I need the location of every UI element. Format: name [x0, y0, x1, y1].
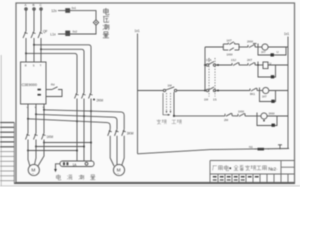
svg-text:R: R — [25, 64, 27, 68]
phase terminal L2 — [33, 8, 36, 11]
svg-text:2M: 2M — [224, 118, 229, 122]
svg-text:L1x: L1x — [50, 32, 56, 36]
svg-text:w: w — [43, 106, 45, 109]
svg-text:S: S — [33, 64, 35, 68]
voltmeter PV — [93, 20, 98, 25]
svg-text:0x1: 0x1 — [72, 6, 77, 10]
run switch loop — [46, 89, 52, 91]
ammeter box — [60, 161, 94, 167]
rung3 — [204, 90, 206, 92]
svg-text:12x: 12x — [51, 9, 57, 13]
node CT V — [35, 146, 37, 148]
bypass wire B — [41, 49, 84, 92]
selector group2 dashes — [209, 58, 215, 97]
svg-text:2KM: 2KM — [269, 112, 276, 116]
NC contact 2KM — [247, 45, 249, 47]
output terminal labels — [27, 106, 45, 109]
rung4 — [174, 115, 225, 117]
contactor 1KM pole 3 — [42, 133, 46, 140]
contactor 3KM pole 3 — [89, 93, 93, 99]
wire L3 down to breaker — [40, 11, 42, 32]
control feed 1x1 — [135, 29, 140, 33]
svg-text:2KT: 2KT — [247, 58, 253, 62]
node CT U — [27, 150, 29, 152]
svg-text:1x1: 1x1 — [135, 29, 140, 33]
motor M2 — [113, 164, 124, 175]
label 1KM — [47, 135, 54, 139]
bottom return line — [138, 149, 290, 154]
crossover wire V to 2KM — [36, 114, 117, 129]
bypass wire A lower — [76, 99, 78, 162]
wire voltage row1 — [58, 11, 96, 20]
motor1 feed U — [27, 140, 29, 151]
selector linkage dashes — [163, 93, 169, 115]
rung2 — [204, 64, 206, 66]
svg-text:8K1: 8K1 — [250, 92, 256, 96]
selector rung — [138, 90, 164, 92]
svg-text:1KM: 1KM — [227, 52, 234, 56]
svg-text:A: A — [25, 3, 27, 7]
earth wire — [56, 164, 61, 169]
node out W — [43, 109, 45, 111]
svg-text:№2·: №2· — [268, 167, 278, 173]
bypass wire C — [26, 53, 77, 92]
wire L1 down to breaker — [25, 11, 27, 32]
fuse FU2 — [65, 31, 70, 36]
node tap A — [33, 44, 35, 46]
svg-text:3KM: 3KM — [127, 132, 134, 136]
inverter run terminal marks — [38, 89, 41, 91]
svg-text:Rd: Rd — [51, 83, 55, 87]
svg-text:~: ~ — [32, 172, 34, 176]
svg-text:N1: N1 — [249, 145, 253, 149]
inverter input terminal labels — [25, 64, 42, 68]
border frame — [16, 3, 295, 183]
svg-text:2KM: 2KM — [247, 40, 254, 44]
svg-text:~: ~ — [117, 172, 119, 176]
motor1 feed W — [43, 140, 45, 143]
bypass wire A — [34, 45, 91, 93]
bypass wire C lower — [90, 99, 92, 162]
voltage row 1 label — [51, 9, 57, 13]
wire pole2 to inverter — [33, 38, 35, 62]
node tap B — [40, 48, 42, 50]
node bypass A — [76, 120, 78, 122]
contactor 1KM pole 2 — [34, 133, 38, 140]
contactor 2KM pole 3 — [122, 129, 126, 136]
snubber loop rung3 — [260, 91, 276, 102]
breaker QF pole 2 — [31, 31, 36, 38]
node bypass B — [83, 115, 85, 117]
snubber loop rung4 — [257, 117, 277, 126]
breaker QF pole 3 — [38, 31, 43, 38]
selector 1SA contact a — [163, 89, 165, 91]
inverter model text — [22, 83, 37, 87]
breaker QF pole 1 — [23, 31, 28, 38]
bypass wire B lower — [83, 99, 85, 162]
contact 8K1 — [249, 89, 251, 91]
svg-text:1KM: 1KM — [47, 135, 54, 139]
node CT W — [43, 142, 45, 144]
svg-text:1KT: 1KT — [227, 38, 233, 42]
contact 2M — [224, 114, 226, 116]
contact 1KM NC — [237, 114, 239, 116]
motor1 feed V — [35, 140, 37, 147]
svg-text:1S: 1S — [213, 98, 217, 102]
contactor 3KM pole 1 — [75, 93, 79, 99]
wire pole1 to inverter — [25, 38, 27, 62]
label QF — [43, 30, 47, 34]
parallel block — [222, 44, 224, 50]
coil rung3 — [263, 87, 269, 93]
left margin revision table — [0, 123, 14, 184]
coil 1KT — [262, 44, 268, 50]
node out U — [27, 118, 29, 120]
rung1 — [205, 46, 223, 48]
svg-text:2KM: 2KM — [97, 99, 104, 103]
label dianliu celiang — [56, 174, 95, 180]
title small cell marks — [213, 176, 217, 178]
phase terminal L3 — [40, 8, 43, 11]
contact 1SJ — [231, 63, 233, 65]
motor2 leads — [110, 136, 114, 166]
inverter output W — [43, 104, 45, 133]
inverter output V — [35, 104, 37, 133]
label dianya celiang vertical — [103, 8, 109, 38]
CT wire U — [28, 150, 77, 152]
svg-text:T: T — [40, 64, 42, 68]
contactor 2KM pole 2 — [115, 129, 119, 136]
fuse N1 on return — [249, 145, 253, 149]
svg-text:1KM: 1KM — [238, 110, 245, 114]
svg-text:C3E9000: C3E9000 — [22, 83, 37, 87]
svg-text:1KT: 1KT — [261, 50, 266, 54]
phase terminal L1 — [25, 8, 28, 11]
title text blobs — [213, 165, 267, 171]
ladder feed vertical — [204, 47, 206, 91]
motor M1 — [28, 164, 39, 175]
contactor 1KM pole 1 — [26, 133, 30, 140]
node out V — [35, 113, 37, 115]
motor1 leads — [28, 151, 30, 166]
wire L2 down to breaker — [33, 11, 35, 32]
CT wire V — [36, 146, 84, 148]
page left edge line — [0, 55, 2, 186]
svg-text:B: B — [33, 3, 35, 7]
linkage arrowheads — [166, 111, 172, 113]
CT wire W — [44, 142, 91, 144]
coil 1K rect — [263, 62, 268, 69]
inverter U1 box — [21, 62, 47, 104]
position labels bianpin gongpin — [157, 120, 182, 125]
label 2KM — [127, 132, 134, 136]
voltage row 2 label — [50, 32, 56, 36]
svg-text:1SJ: 1SJ — [231, 58, 237, 62]
coil 2KM — [261, 113, 267, 119]
wire pole3 to inverter — [40, 38, 42, 62]
phase labels — [25, 3, 43, 7]
wire voltage row2 — [58, 25, 96, 34]
svg-text:1x1: 1x1 — [284, 32, 289, 36]
label 3KM — [97, 99, 104, 103]
inverter output U — [27, 104, 29, 133]
contactor 2KM pole 1 — [108, 129, 112, 136]
contact 2KT — [247, 63, 249, 65]
svg-text:1M: 1M — [204, 98, 209, 102]
contactor 3KM pole 2 — [82, 93, 86, 99]
crossover wire U to 2KM — [28, 119, 110, 130]
svg-text:~: ~ — [268, 147, 270, 151]
svg-text:0x2: 0x2 — [73, 29, 78, 33]
node tap C — [25, 52, 27, 54]
svg-text:QF: QF — [43, 30, 47, 34]
svg-text:1KT: 1KT — [262, 95, 267, 99]
node bypass C — [90, 110, 92, 112]
svg-text:1M: 1M — [168, 83, 173, 87]
fuse FU1 — [65, 8, 70, 13]
svg-text:U: U — [277, 50, 279, 54]
crossover wire W to 2KM — [44, 110, 124, 130]
title block — [210, 161, 295, 183]
right bus — [284, 32, 289, 36]
